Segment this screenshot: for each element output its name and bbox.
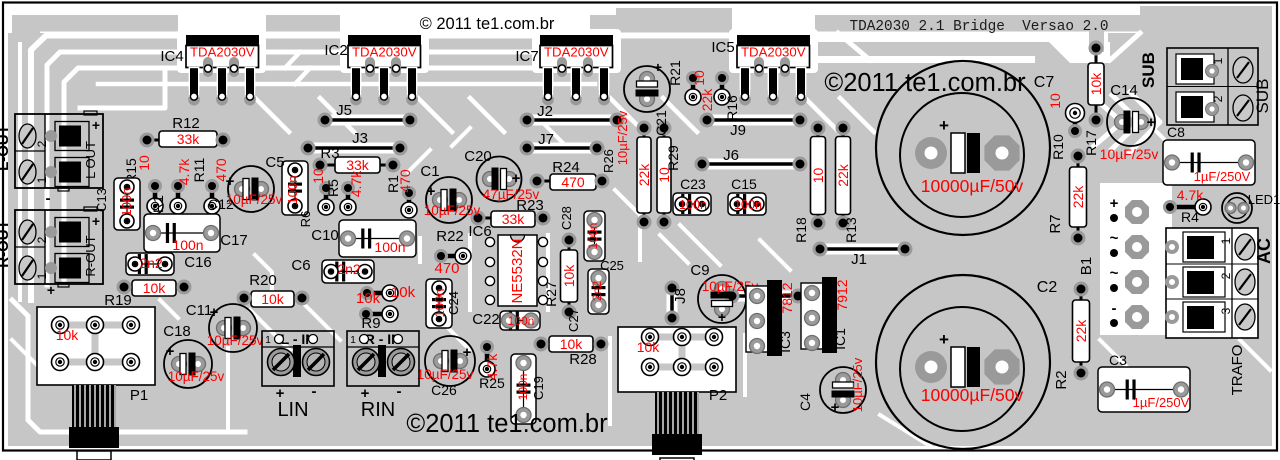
svg-text:C3: C3 [1109,352,1127,368]
svg-text:RIN: RIN [361,399,395,421]
svg-text:1µF/250V: 1µF/250V [1194,169,1251,184]
svg-text:100n: 100n [679,198,707,212]
svg-text:10µF/25v: 10µF/25v [1100,146,1159,162]
svg-text:C7: C7 [1034,74,1055,91]
svg-text:C15: C15 [731,176,757,192]
svg-text:IC5: IC5 [711,39,734,56]
svg-text:+: + [939,330,949,349]
svg-text:100n: 100n [374,239,405,255]
svg-text:1: 1 [35,176,49,183]
svg-text:+: + [47,282,55,298]
svg-text:C21: C21 [653,110,669,136]
svg-text:R4: R4 [1181,209,1199,225]
svg-text:R3: R3 [320,145,339,162]
svg-text:C17: C17 [220,232,248,249]
svg-text:C25: C25 [600,258,624,273]
svg-text:10µF/25v: 10µF/25v [417,367,474,382]
svg-text:10k: 10k [637,339,661,355]
svg-text:C18: C18 [163,323,191,340]
svg-text:2: 2 [1219,272,1233,279]
svg-text:1: 1 [1219,237,1233,244]
svg-text:7912: 7912 [834,279,850,310]
svg-text:7812: 7812 [779,282,795,313]
svg-text:100n: 100n [119,188,134,217]
svg-text:L-OUT: L-OUT [0,125,12,171]
svg-text:©2011 te1.com.br: ©2011 te1.com.br [824,69,1026,97]
svg-text:2n2: 2n2 [337,261,361,277]
svg-text:2: 2 [35,140,49,147]
svg-text:C10: C10 [311,227,339,244]
svg-text:100n: 100n [508,314,535,328]
svg-text:IC2: IC2 [324,42,347,59]
svg-text:100n: 100n [516,374,530,401]
svg-text:R18: R18 [793,217,809,243]
svg-text:R16: R16 [724,95,740,121]
svg-text:R6: R6 [298,211,313,228]
svg-text:TRAFO: TRAFO [1229,345,1246,396]
svg-text:C16: C16 [184,254,212,271]
svg-text:+: + [831,399,840,416]
svg-text:J6: J6 [723,147,739,164]
svg-text:R7: R7 [1047,214,1064,233]
svg-text:J1: J1 [851,251,867,268]
svg-text:J9: J9 [730,122,746,139]
svg-text:B1: B1 [1078,257,1095,275]
svg-text:C26: C26 [431,382,457,398]
svg-text:22k: 22k [1070,185,1086,209]
svg-text:R17: R17 [1083,130,1099,156]
svg-text:IC6: IC6 [468,223,491,240]
svg-text:2: 2 [1211,95,1225,102]
svg-text:IC7: IC7 [515,48,538,65]
svg-text:-: - [397,383,402,400]
svg-text:+: + [166,343,175,360]
svg-text:100n: 100n [586,223,600,250]
svg-text:10: 10 [310,168,326,184]
svg-text:SUB: SUB [1139,52,1158,88]
svg-text:4.7k: 4.7k [1177,187,1204,203]
svg-text:R2: R2 [1053,370,1070,389]
svg-text:R25: R25 [479,375,505,391]
svg-text:C5: C5 [265,154,284,171]
svg-text:C28: C28 [559,206,574,230]
svg-text:AC: AC [1254,238,1274,264]
svg-text:470: 470 [561,174,585,190]
svg-text:+: + [463,344,472,361]
svg-text:R26: R26 [601,149,616,173]
svg-text:C9: C9 [690,262,709,279]
svg-text:10k: 10k [560,336,584,352]
svg-text:NE5532N: NE5532N [509,238,526,303]
svg-text:R-OUT: R-OUT [83,235,98,276]
svg-text:C8: C8 [1167,124,1185,140]
svg-text:C13: C13 [94,188,109,212]
svg-text:TDA2030V: TDA2030V [544,45,609,60]
svg-text:R28: R28 [569,351,597,368]
svg-text:1: 1 [1211,57,1225,64]
svg-text:TDA2030V: TDA2030V [741,45,806,60]
svg-text:2: 2 [35,236,49,243]
svg-text:33k: 33k [346,157,370,173]
svg-text:1: 1 [265,335,271,346]
svg-text:C23: C23 [680,176,706,192]
svg-text:2n2: 2n2 [139,255,163,271]
svg-text:+: + [512,170,521,187]
svg-text:10k: 10k [561,264,577,288]
svg-text:100n: 100n [172,237,203,253]
svg-text:33k: 33k [177,131,201,147]
svg-text:10000µF/50v: 10000µF/50v [921,385,1024,405]
svg-text:R9: R9 [361,315,380,332]
svg-text:R5: R5 [325,179,341,197]
svg-text:+: + [939,116,949,135]
svg-text:P2: P2 [709,387,727,404]
svg-text:J3: J3 [352,130,368,147]
svg-text:+: + [226,173,235,190]
svg-text:C11: C11 [186,302,212,319]
svg-text:4.7k: 4.7k [348,170,364,197]
svg-text:IC3: IC3 [777,331,793,353]
svg-text:47µF/25v: 47µF/25v [483,187,540,202]
svg-text:2n2: 2n2 [590,281,604,301]
svg-text:©2011 te1.com.br: ©2011 te1.com.br [406,410,608,438]
svg-text:-: - [46,190,51,207]
svg-text:10k: 10k [1088,72,1104,96]
svg-text:C6: C6 [291,257,310,274]
svg-text:R1: R1 [385,175,401,193]
svg-text:+: + [1147,114,1156,131]
svg-text:10k: 10k [356,290,381,307]
svg-text:C20: C20 [464,148,492,165]
svg-text:4.7k: 4.7k [176,158,192,185]
svg-text:1: 1 [35,272,49,279]
svg-text:C24: C24 [446,291,461,315]
svg-text:1µF/250V: 1µF/250V [1133,395,1190,410]
svg-text:J2: J2 [537,103,553,120]
svg-text:10k: 10k [391,284,416,301]
svg-text:100n: 100n [734,198,762,212]
svg-text:C14: C14 [1110,82,1138,99]
svg-text:IC4: IC4 [160,48,183,65]
svg-text:22k: 22k [636,163,652,187]
svg-text:100n: 100n [285,176,300,205]
svg-text:R11: R11 [191,157,207,182]
svg-text:10000µF/50v: 10000µF/50v [921,176,1024,196]
svg-text:22k: 22k [835,163,851,187]
svg-text:R1: R1 [150,195,166,213]
svg-text:C2: C2 [1037,279,1058,296]
svg-text:+: + [92,213,100,229]
svg-text:R10: R10 [1050,134,1066,160]
svg-text:L OUT: L OUT [83,141,98,179]
svg-text:22k: 22k [1073,319,1089,343]
svg-text:C27: C27 [566,308,581,332]
svg-text:+: + [1110,195,1119,212]
svg-text:~: ~ [1110,265,1119,282]
svg-text:+: + [654,59,662,75]
svg-text:R20: R20 [249,272,277,289]
svg-text:TDA2030V: TDA2030V [352,45,417,60]
svg-text:R12: R12 [172,115,200,132]
svg-text:10µF/25v: 10µF/25v [850,357,865,412]
svg-text:© 2011 te1.com.br: © 2011 te1.com.br [420,15,555,33]
svg-text:3: 3 [1219,307,1233,314]
svg-text:LIN: LIN [277,399,308,421]
svg-text:10k: 10k [143,280,167,296]
svg-text:10: 10 [1047,93,1063,109]
svg-text:10: 10 [810,168,826,184]
svg-text:P1: P1 [130,387,148,404]
svg-text:10: 10 [691,70,707,86]
svg-text:10µF/25v: 10µF/25v [168,369,225,384]
svg-text:TDA2030 2.1 Bridge Versao 2.0: TDA2030 2.1 Bridge Versao 2.0 [849,19,1108,35]
svg-text:100n: 100n [432,289,447,318]
svg-text:C4: C4 [797,393,813,411]
svg-text:TDA2030V: TDA2030V [190,45,255,60]
svg-text:R24: R24 [552,159,580,176]
svg-text:470: 470 [434,260,459,277]
svg-text:-: - [312,383,317,400]
svg-text:J8: J8 [672,288,689,304]
svg-text:+: + [92,117,100,133]
svg-text:C19: C19 [531,376,546,400]
svg-text:10µF/25v: 10µF/25v [207,333,264,348]
svg-text:+: + [427,183,436,200]
svg-text:22k: 22k [699,88,715,112]
svg-text:SUB: SUB [1253,79,1272,114]
svg-text:R29: R29 [665,145,681,171]
svg-text:IC1: IC1 [832,328,848,350]
svg-text:10µF/25v: 10µF/25v [615,110,630,165]
svg-text:R-OUT: R-OUT [0,220,12,268]
svg-text:+: + [718,309,726,325]
svg-text:~: ~ [1110,230,1119,247]
svg-text:J5: J5 [336,102,352,119]
svg-text:10µF/25v: 10µF/25v [424,203,481,218]
svg-text:R22: R22 [436,228,464,245]
svg-text:J7: J7 [538,131,554,148]
svg-text:C22: C22 [472,311,500,328]
svg-text:10µF/25v: 10µF/25v [226,192,283,207]
svg-text:R13: R13 [843,217,859,243]
svg-text:1: 1 [350,335,356,346]
svg-text:C1: C1 [420,163,439,180]
svg-text:10k: 10k [56,327,80,343]
svg-text:-: - [1112,300,1117,317]
svg-text:LED1: LED1 [1248,192,1280,207]
svg-text:10k: 10k [261,291,285,307]
